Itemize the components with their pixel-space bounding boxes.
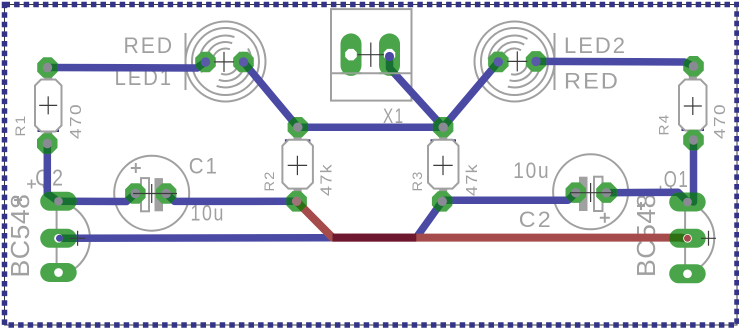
pad X1.1 [341,33,362,76]
pad Q1.B [669,229,706,248]
svg-text:47k: 47k [319,163,336,196]
connector X1 outline [331,9,412,101]
pad R1.2 [37,133,58,154]
pad R3.2 [432,191,453,212]
resistor R3 body [431,139,435,143]
wire C1.+ to R2.2 [166,194,296,202]
svg-text:47k: 47k [464,163,481,196]
origin cross R1 [39,96,57,114]
pad Q2.C [40,192,76,211]
resistor R4 body [682,128,686,132]
svg-text:LED2: LED2 [564,33,627,58]
svg-text:RED: RED [564,69,620,94]
svg-text:470: 470 [712,103,729,139]
origin cross X1 [358,43,385,67]
wire LED1.K to R2.1 [244,62,298,127]
pad Q2.B [40,229,76,248]
overlap of red and blue bus [333,234,417,242]
resistor R2 body [285,139,289,143]
wire Q2.C to C1.- [59,194,136,202]
pad C1.- [125,183,146,204]
wire X1.2 to R3.1 [390,55,444,128]
wire R1.2 to Q2.C [47,144,58,202]
origin cross LED1 [214,52,234,72]
pad C1.+ [156,183,177,204]
pad R3.1 [433,117,454,137]
pad LED1.K [233,52,254,72]
origin cross R4 [684,97,702,115]
pad LED2.A [488,52,509,73]
svg-text:470: 470 [68,103,85,139]
svg-text:C1: C1 [189,154,219,179]
origin cross C2 [570,192,613,194]
wire LED2.K to R4.1 [536,61,694,66]
origin cross C1 [133,193,177,195]
svg-text:R3: R3 [409,171,425,192]
wire LED2.A to R3.1 [443,62,498,127]
pad Q2.E [40,263,76,282]
transistor Q1 outline [637,202,714,274]
pad R4.1 [683,56,704,77]
LED LED2 outline [475,22,555,102]
pad X1.2 [379,33,400,76]
svg-text:10u: 10u [513,158,550,183]
transistor Q2 outline [14,196,90,276]
svg-text:R1: R1 [12,115,28,137]
svg-text:BC548: BC548 [5,194,35,278]
pad LED2.K [526,51,546,72]
pad R2.2 [286,191,307,212]
origin cross R2 [288,156,307,175]
svg-text:R2: R2 [261,171,277,192]
pad Q1.C [669,193,706,212]
origin cross R3 [433,156,452,175]
wire C2.- to Q1.C [607,192,688,201]
svg-text:Q1: Q1 [664,166,690,192]
pad C2.- [596,182,617,203]
wire R1.1 to LED1.A [48,62,206,68]
drill holes [43,63,53,73]
wire R3.2 to C2.+ [442,193,576,202]
pad R2.1 [288,117,309,137]
origin cross LED2 [507,51,527,71]
pad Q1.E [669,264,706,283]
wire R4.2 to Q1.C [690,140,698,202]
svg-text:R4: R4 [656,114,672,136]
LED LED1 outline [186,22,266,102]
wire R2.1 to R3.1 [298,123,443,131]
pad LED1.A [195,52,216,72]
wire Q2.B to R3.2 (bottom bus) [59,201,443,238]
svg-text:RED: RED [124,33,175,58]
capacitor C2 outline [553,154,628,229]
wire R2.2 to Q1.B (top layer) [297,201,688,238]
resistor R1 body [38,129,42,133]
svg-text:C2: C2 [519,207,553,232]
origin cross Q1 [701,231,716,246]
pad R1.1 [37,57,58,78]
pad C2.+ [566,182,587,203]
pad R4.2 [683,130,704,150]
capacitor C1 outline [114,156,189,231]
origin cross Q2 [70,231,85,246]
